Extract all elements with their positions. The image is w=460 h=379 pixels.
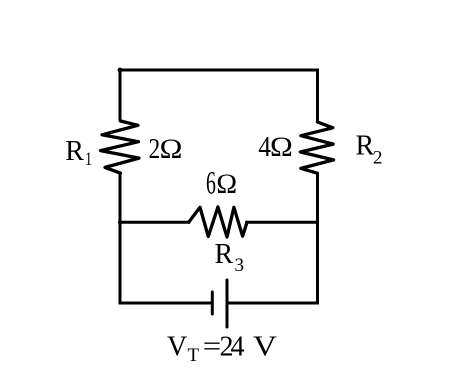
- svg-text:V: V: [167, 332, 187, 363]
- svg-text:R: R: [215, 239, 234, 270]
- svg-text:Ω: Ω: [270, 132, 294, 162]
- label R1 subscript 1: [85, 148, 92, 169]
- label equals sign: [203, 331, 221, 362]
- svg-text:4: 4: [231, 332, 245, 363]
- svg-text:3: 3: [235, 255, 245, 276]
- svg-text:6: 6: [206, 165, 216, 201]
- label V unit: [253, 331, 277, 362]
- svg-text:T: T: [188, 345, 200, 366]
- battery positive plate (long bar): [226, 280, 229, 327]
- value 4Ω digit 4: [258, 131, 271, 163]
- svg-text:Ω: Ω: [159, 134, 183, 164]
- resistor R1: [101, 121, 140, 173]
- wire right lower + bottom right: [227, 173, 318, 304]
- svg-text:1: 1: [85, 148, 92, 169]
- svg-text:=: =: [203, 331, 221, 362]
- wire middle left lead: [120, 221, 189, 224]
- battery negative plate (short bar): [211, 292, 214, 314]
- value 2Ω omega: [159, 134, 183, 164]
- wire left lower + bottom left: [120, 173, 212, 304]
- value 4Ω omega: [270, 132, 294, 162]
- resistor R2: [300, 122, 333, 173]
- wire middle right lead: [247, 221, 318, 224]
- wire top with corner stubs: [120, 70, 318, 123]
- node B (top-left corner dot): [118, 68, 123, 73]
- resistor R3: [189, 207, 247, 237]
- value 2Ω digit 2: [149, 133, 161, 164]
- value 6Ω digit 6: [206, 165, 216, 201]
- svg-text:2: 2: [373, 148, 383, 169]
- svg-text:Ω: Ω: [216, 169, 238, 200]
- svg-text:R: R: [356, 131, 375, 162]
- node A (left middle junction): [118, 220, 122, 224]
- svg-text:V: V: [253, 331, 277, 362]
- svg-text:R: R: [65, 136, 84, 167]
